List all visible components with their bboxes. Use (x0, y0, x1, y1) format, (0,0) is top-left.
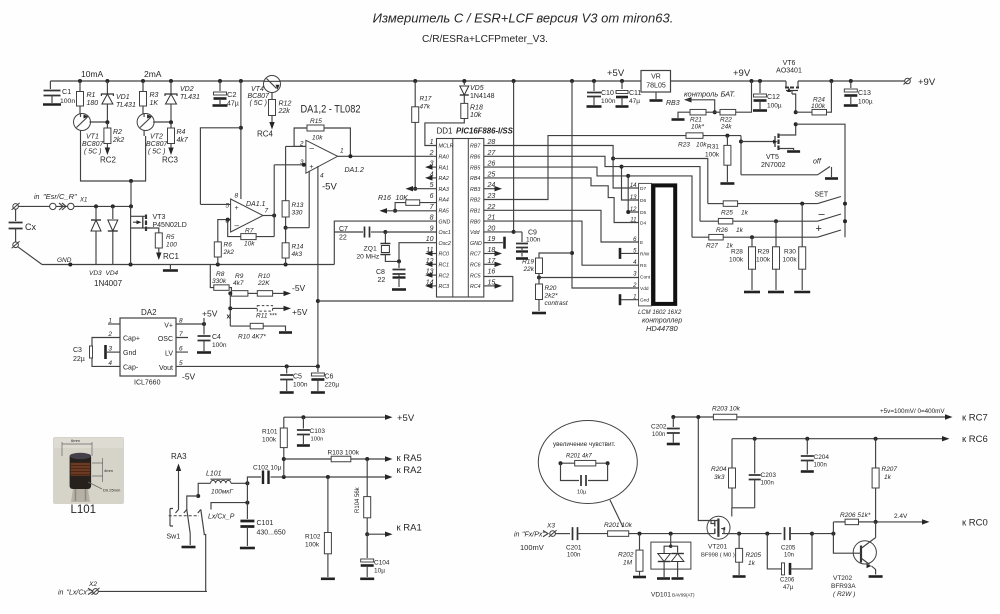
svg-text:( 5C ): ( 5C ) (84, 149, 102, 156)
svg-text:180: 180 (87, 100, 99, 107)
node -5V/RC5 (316, 299, 320, 303)
svg-text:VT6: VT6 (783, 60, 796, 67)
svg-text:Vdd: Vdd (470, 230, 480, 236)
svg-text:C4: C4 (212, 334, 221, 341)
svg-text:C206: C206 (780, 578, 795, 584)
svg-text:R31: R31 (707, 144, 719, 151)
capacitor C101 (240, 521, 254, 527)
IC VR 78L05 (641, 71, 671, 93)
pin RC2 (106, 144, 108, 149)
svg-text:C203: C203 (761, 472, 777, 479)
diode VD5 (463, 81, 465, 85)
svg-text:10k: 10k (244, 241, 255, 248)
svg-text:10k*: 10k* (691, 124, 704, 131)
svg-text:x: x (227, 314, 231, 321)
svg-text:RC5: RC5 (470, 273, 481, 279)
LCD module LCM1602 (639, 183, 652, 306)
capacitor C1 (49, 81, 51, 89)
capacitor Cx (15, 209, 17, 221)
svg-text:6mm: 6mm (71, 438, 81, 443)
svg-text:L101: L101 (206, 471, 222, 478)
svg-text:Lx/Cx_P: Lx/Cx_P (208, 514, 235, 521)
wire RA1 row (365, 532, 369, 536)
resistor R1 (79, 81, 81, 114)
transistor VT5 2N7002 (740, 136, 742, 175)
svg-text:C5: C5 (293, 374, 302, 381)
wire RB1 to E (484, 210, 639, 242)
resistor R12 (269, 100, 276, 116)
wire input line (18, 205, 131, 207)
IC DD1 PIC16F886 box (437, 139, 484, 298)
capacitor C5 (286, 366, 288, 373)
svg-text:( 5C ): ( 5C ) (148, 149, 166, 156)
resistor R5 (155, 233, 162, 248)
svg-text:RA1: RA1 (439, 165, 449, 171)
svg-text:Vout: Vout (159, 365, 173, 372)
svg-text:+9V: +9V (918, 77, 936, 88)
resistor R10 (248, 292, 257, 294)
transistor VT202 BFR93A (853, 541, 876, 564)
svg-text:Cx: Cx (25, 222, 36, 232)
svg-text:Gnd: Gnd (123, 350, 136, 357)
capacitor C205 (785, 527, 791, 540)
resistor R11 dashed (230, 307, 257, 309)
svg-text:100k: 100k (756, 257, 771, 264)
svg-text:4k7: 4k7 (177, 137, 189, 144)
pin RA2 arrow (429, 177, 437, 179)
svg-text:L101: L101 (71, 504, 97, 516)
pin RB3 arrow (484, 188, 495, 190)
wire DA1.1 -in (218, 220, 231, 242)
resistor R29 (775, 221, 777, 247)
svg-text:11: 11 (630, 218, 636, 224)
resistor R4 (170, 122, 172, 128)
svg-text:X2: X2 (88, 581, 97, 588)
svg-text:R14: R14 (292, 244, 304, 251)
resistor R101 (283, 417, 285, 428)
svg-text:–: – (310, 144, 315, 153)
svg-text:RA3: RA3 (439, 187, 449, 193)
svg-text:+: + (816, 223, 822, 235)
svg-text:C13: C13 (858, 90, 871, 97)
wire +9V/+5V top rail (50, 80, 904, 82)
wire PIC GND pin8 (334, 221, 436, 264)
svg-text:ICL7660: ICL7660 (134, 380, 161, 387)
pin -5V arrow (284, 291, 292, 296)
resistor R8 (210, 265, 214, 288)
wire L101 right (231, 482, 247, 484)
svg-text:R202: R202 (618, 552, 634, 559)
resistor R20 (536, 284, 543, 300)
resistor R9 (229, 288, 231, 294)
pin RC3 (170, 144, 172, 149)
node emitter junction (129, 179, 133, 183)
svg-text:R205: R205 (746, 552, 762, 559)
svg-text:D4: D4 (640, 221, 646, 227)
svg-text:RC2: RC2 (100, 156, 117, 165)
svg-text:-5V: -5V (292, 283, 306, 293)
svg-text:100mV: 100mV (520, 543, 544, 552)
svg-text:2k2: 2k2 (223, 249, 235, 256)
svg-text:10µ: 10µ (577, 490, 587, 496)
svg-text:R28: R28 (731, 249, 743, 256)
svg-text:R207: R207 (882, 466, 898, 473)
wire RA5 row (282, 457, 286, 461)
svg-text:100n: 100n (567, 553, 580, 559)
circle увеличение чувствит (538, 421, 637, 504)
svg-text:RC0: RC0 (439, 252, 450, 258)
svg-text:–: – (235, 221, 240, 230)
svg-text:100n: 100n (311, 437, 324, 443)
svg-text:RB3: RB3 (666, 100, 680, 107)
svg-text:22k: 22k (523, 266, 535, 273)
svg-text:VD2: VD2 (180, 86, 194, 93)
svg-text:R201 10k: R201 10k (604, 522, 633, 529)
svg-text:RB0: RB0 (470, 219, 480, 225)
resistor R2 (106, 122, 108, 128)
svg-text:in: in (34, 194, 40, 201)
diode VD101 BAV99 (670, 534, 672, 547)
pin RC1 (158, 248, 160, 253)
resistor R6 (214, 242, 221, 257)
capacitor C8 (398, 261, 400, 268)
svg-text:22µ: 22µ (73, 356, 85, 363)
svg-text:R101: R101 (262, 429, 278, 436)
svg-text:+5v=100mV/ 0=400mV: +5v=100mV/ 0=400mV (880, 408, 945, 415)
pin RC4 arrow (484, 285, 495, 287)
svg-text:RA0: RA0 (439, 155, 449, 161)
capacitor C203 (754, 439, 756, 474)
svg-text:SET: SET (815, 192, 829, 199)
svg-text:R6: R6 (224, 242, 233, 249)
svg-text:47µ: 47µ (783, 585, 794, 591)
capacitor C2 (219, 81, 221, 91)
svg-text:R203 10k: R203 10k (712, 406, 741, 413)
capacitor C201 (555, 533, 570, 535)
capacitor C3 (92, 338, 120, 347)
svg-text:PIC16F886-I/SS: PIC16F886-I/SS (456, 127, 514, 136)
svg-text:DA1,2 - TL082: DA1,2 - TL082 (301, 104, 361, 116)
svg-text:RB2: RB2 (470, 198, 480, 204)
svg-text:Vdd: Vdd (640, 286, 649, 292)
svg-text:"Esr/C_R": "Esr/C_R" (43, 192, 77, 201)
svg-text:C204: C204 (814, 454, 830, 461)
svg-text:D6: D6 (640, 198, 646, 204)
wire RC0 row (836, 521, 928, 523)
svg-text:R204: R204 (711, 466, 727, 473)
svg-text:1N4007: 1N4007 (94, 279, 123, 288)
svg-text:10k: 10k (696, 142, 707, 149)
svg-text:RB3: RB3 (470, 187, 480, 193)
svg-text:4mm: 4mm (104, 468, 114, 473)
wire osc2 (399, 243, 437, 262)
svg-text:R4: R4 (177, 129, 186, 136)
wire -in to R13 (286, 145, 306, 147)
wire DA1.1 +in (200, 203, 230, 205)
svg-text:47µ: 47µ (629, 98, 640, 105)
svg-text:100n: 100n (601, 98, 616, 105)
resistor R3 (142, 81, 144, 114)
svg-text:D7: D7 (640, 186, 646, 192)
svg-text:R15: R15 (310, 118, 322, 125)
svg-text:4k7: 4k7 (233, 280, 244, 287)
svg-text:contrast: contrast (545, 300, 569, 307)
svg-text:-5V: -5V (322, 182, 337, 193)
wire switch second pole (211, 503, 247, 510)
resistor R7 feedback (228, 220, 241, 237)
svg-text:RC7: RC7 (470, 252, 482, 258)
svg-text:VD5: VD5 (470, 85, 484, 92)
svg-text:C9: C9 (528, 230, 537, 237)
resistor R104 (366, 459, 368, 497)
pins RC0-RC3 arrows (429, 253, 437, 255)
svg-text:RB1: RB1 (470, 209, 480, 215)
svg-text:100k: 100k (811, 103, 826, 110)
svg-text:R16: R16 (378, 195, 391, 202)
svg-text:100n: 100n (526, 237, 541, 244)
svg-text:100k: 100k (262, 437, 277, 444)
svg-text:VD1: VD1 (116, 94, 130, 101)
svg-text:4k3: 4k3 (292, 251, 303, 258)
svg-text:R29: R29 (758, 249, 770, 256)
resistor R202 (639, 534, 641, 551)
svg-text:5: 5 (430, 182, 434, 189)
svg-text:R1: R1 (87, 92, 96, 99)
svg-text:3k3: 3k3 (714, 474, 725, 481)
svg-text:R3: R3 (150, 92, 159, 99)
svg-text:22: 22 (339, 235, 347, 242)
svg-text:( 5C ): ( 5C ) (250, 100, 268, 107)
resistor R24 (794, 110, 798, 114)
wire VT1/VT2 emitters (81, 136, 146, 181)
node contrast (537, 276, 541, 280)
resistor R102 (327, 477, 329, 533)
svg-text:AO3401: AO3401 (776, 68, 802, 75)
svg-text:R206 51k*: R206 51k* (840, 512, 871, 519)
resistor R10* (230, 325, 250, 327)
svg-text:"Fx/Px": "Fx/Px" (522, 532, 545, 539)
svg-text:Измеритель С / ESR+LCF версия: Измеритель С / ESR+LCF версия V3 от miro… (373, 11, 674, 26)
svg-text:off: off (813, 159, 822, 166)
svg-text:100k: 100k (729, 257, 744, 264)
svg-text:R/W: R/W (640, 251, 650, 257)
svg-text:BC807: BC807 (248, 93, 271, 100)
svg-text:VD3: VD3 (89, 270, 102, 277)
svg-text:VD101: VD101 (651, 592, 671, 599)
svg-text:2k2: 2k2 (112, 137, 124, 144)
svg-text:1k: 1k (741, 210, 749, 217)
svg-text:RC4: RC4 (470, 284, 481, 290)
svg-text:TL431: TL431 (180, 94, 200, 101)
svg-text:430...650: 430...650 (257, 530, 286, 537)
svg-text:к RA2: к RA2 (397, 465, 422, 476)
wire V+ feed DA1.1 (240, 81, 242, 199)
wire gate2 join (732, 488, 755, 508)
DA2 pin stubs (108, 323, 120, 325)
svg-text:контроль БАТ.: контроль БАТ. (684, 90, 735, 99)
svg-text:R30: R30 (784, 249, 796, 256)
wire common line (42, 264, 334, 266)
svg-text:1M: 1M (623, 560, 633, 567)
svg-text:1N4148: 1N4148 (470, 93, 495, 100)
diode VD2 TL431 (170, 81, 172, 94)
svg-text:7: 7 (265, 208, 269, 215)
svg-text:LV: LV (165, 351, 173, 358)
wire DA1.2 +in (274, 164, 306, 166)
wire Vout -5V line (176, 365, 318, 367)
svg-text:DA1.2: DA1.2 (345, 167, 365, 174)
wire DA1.2 out to RA0 (338, 155, 437, 157)
node RA3 (413, 187, 417, 191)
op-amp DA1.2 (306, 140, 338, 173)
wire RB4 to D4 (484, 178, 639, 223)
svg-text:1k: 1k (884, 474, 892, 481)
svg-text:RA3: RA3 (171, 452, 187, 461)
svg-text:R8: R8 (216, 271, 225, 278)
svg-text:1: 1 (430, 139, 434, 146)
svg-text:RA5: RA5 (439, 209, 449, 215)
wire L101 left (198, 483, 210, 496)
svg-text:Cap-: Cap- (123, 365, 139, 372)
resistor R17 (414, 81, 416, 107)
svg-text:R13: R13 (292, 202, 304, 209)
photo L101 (53, 437, 124, 504)
svg-text:DA2: DA2 (141, 308, 157, 317)
resistor R15 feedback (324, 128, 350, 156)
svg-text:C11: C11 (629, 90, 641, 97)
svg-text:16: 16 (488, 269, 496, 276)
wire bus plus (628, 176, 692, 237)
svg-text:OSC: OSC (158, 336, 173, 343)
pin 19 GND tick (484, 242, 503, 244)
svg-text:Osc1: Osc1 (439, 230, 451, 236)
wire DA1.1 out (263, 215, 274, 217)
svg-text:C12: C12 (767, 94, 780, 101)
svg-text:R5: R5 (166, 234, 175, 241)
svg-text:in: in (514, 532, 520, 539)
svg-text:10k: 10k (312, 135, 323, 142)
svg-text:VT5: VT5 (766, 154, 779, 161)
svg-text:( R2W ): ( R2W ) (833, 591, 855, 598)
svg-text:C7: C7 (339, 226, 348, 233)
svg-text:R7: R7 (245, 228, 254, 235)
node bus1 (611, 157, 615, 161)
node VT6 gate (794, 122, 798, 126)
capacitor C103 (302, 417, 304, 428)
svg-text:12: 12 (630, 207, 637, 213)
wire circle pointer (610, 500, 623, 527)
svg-text:C101: C101 (257, 520, 274, 527)
resistor R14 (285, 228, 287, 243)
svg-text:BFR93A: BFR93A (831, 583, 856, 590)
pin RA1 arrow (429, 166, 437, 168)
svg-text:330k: 330k (212, 278, 227, 285)
capacitor C104 (366, 534, 368, 558)
diode VD1 TL431 (106, 81, 108, 94)
svg-text:R19: R19 (522, 259, 534, 266)
svg-text:P45N02LD: P45N02LD (153, 222, 187, 229)
terminal X1b (13, 242, 19, 248)
capacitor C13 (850, 81, 852, 88)
capacitor C204 (806, 439, 808, 455)
svg-text:13: 13 (630, 195, 637, 201)
transistor VT4 (264, 76, 281, 93)
wire RB6 to D6 (484, 156, 639, 200)
svg-text:R11 ***: R11 *** (256, 313, 277, 320)
svg-text:RA4: RA4 (439, 198, 449, 204)
svg-text:C8: C8 (376, 269, 385, 276)
diode VD3 (95, 206, 97, 219)
svg-text:10µ: 10µ (374, 568, 385, 575)
svg-text:-5V: -5V (182, 372, 196, 382)
svg-text:1k: 1k (748, 560, 756, 567)
svg-text:100n: 100n (60, 98, 75, 105)
svg-text:R201 4k7: R201 4k7 (566, 454, 592, 460)
node V+ branch (239, 126, 243, 130)
resistor R28 (751, 237, 753, 247)
wire RB0 to RS (484, 221, 639, 265)
svg-text:2k2*: 2k2* (544, 293, 558, 300)
wire +5V to Vdd pin20 (484, 81, 514, 232)
svg-text:1K: 1K (150, 100, 159, 107)
svg-text:VT2: VT2 (150, 134, 163, 141)
svg-text:R10: R10 (258, 273, 270, 280)
svg-text:RC4: RC4 (257, 130, 274, 139)
svg-text:V+: V+ (164, 323, 173, 330)
svg-text:2.4V: 2.4V (894, 513, 908, 520)
svg-text:X3: X3 (546, 523, 555, 530)
svg-text:R23: R23 (678, 142, 690, 149)
svg-text:Cap+: Cap+ (123, 336, 140, 343)
svg-text:RB4: RB4 (470, 176, 480, 182)
svg-text:GND: GND (439, 219, 451, 225)
wire -5V column (317, 166, 319, 366)
svg-text:+: + (235, 205, 239, 212)
svg-text:+5V: +5V (202, 309, 218, 319)
svg-text:VT202: VT202 (833, 575, 853, 582)
wire to input line (130, 181, 132, 206)
svg-text:к RC0: к RC0 (962, 518, 988, 529)
node common dots (129, 263, 133, 267)
svg-text:5: 5 (225, 203, 229, 210)
svg-text:100k: 100k (783, 257, 798, 264)
svg-text:к RA5: к RA5 (397, 453, 422, 464)
svg-text:Gnd: Gnd (640, 298, 649, 304)
svg-text:R17: R17 (420, 96, 432, 103)
svg-text:Osc2: Osc2 (439, 241, 451, 247)
svg-text:D5: D5 (640, 210, 646, 216)
svg-text:10mA: 10mA (81, 69, 104, 79)
wire RB5 to D5 (484, 167, 639, 212)
capacitor C4 (203, 324, 205, 335)
svg-text:10: 10 (426, 236, 434, 243)
svg-text:C6: C6 (325, 374, 334, 381)
resistor R19 (570, 251, 574, 255)
capacitor C206 (767, 534, 782, 569)
svg-text:BF998 ( M0 ): BF998 ( M0 ) (701, 553, 735, 559)
svg-text:C103: C103 (310, 428, 326, 435)
svg-text:24k: 24k (720, 124, 732, 131)
node input line dots (94, 204, 98, 208)
node divider (284, 226, 288, 230)
svg-text:+5V: +5V (607, 68, 625, 79)
svg-text:220µ: 220µ (325, 382, 340, 389)
svg-text:78L05: 78L05 (646, 83, 666, 90)
svg-text:RB5: RB5 (470, 165, 480, 171)
svg-text:R10 4K7*: R10 4K7* (238, 334, 266, 341)
svg-text:Sw1: Sw1 (167, 534, 181, 541)
svg-text:100k: 100k (305, 542, 320, 549)
